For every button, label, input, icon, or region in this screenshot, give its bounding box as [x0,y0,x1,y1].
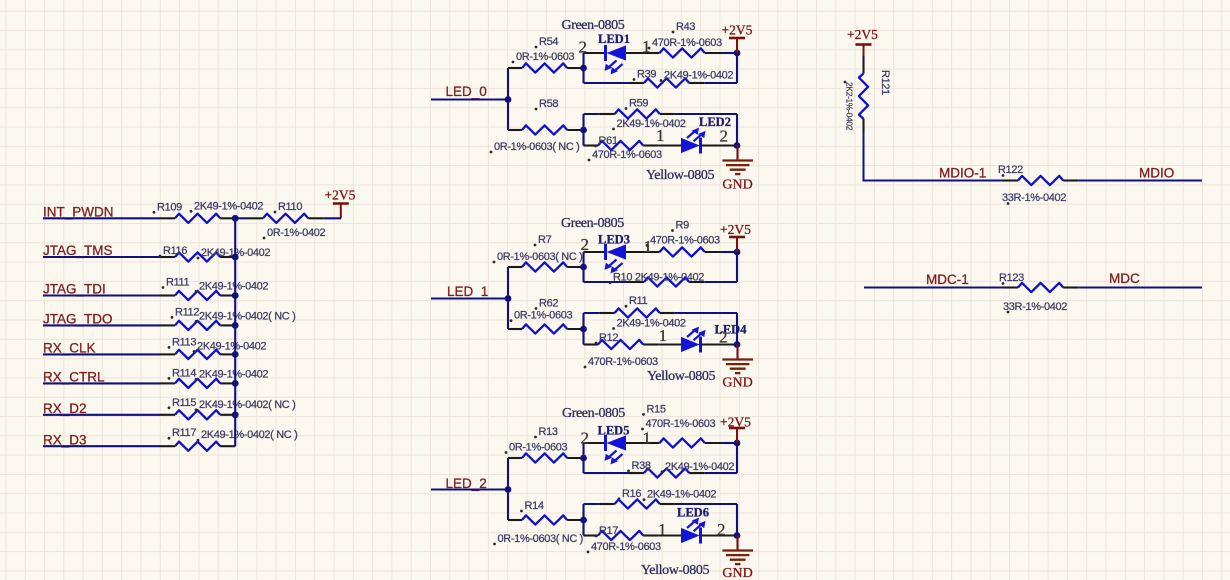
svg-text:R111: R111 [166,277,189,289]
svg-text:2K49-1%-0402( NC ): 2K49-1%-0402( NC ) [201,429,297,441]
svg-text:0R-1%-0603: 0R-1%-0603 [509,442,567,454]
label 470R-1%-0603 [588,149,662,161]
label 470R-1%-0603 [584,356,658,368]
svg-text:+2V5: +2V5 [720,222,751,237]
junction upper branch LED_0 [580,65,587,72]
wire gnd stem LED_0 [736,146,738,161]
junction lower branch LED_0 [580,127,587,134]
wire to LED3 cathode [584,251,606,253]
wire LED6 cathode to gnd [701,534,737,536]
resistor R113 [160,350,235,359]
wire to LED1 cathode [584,52,606,54]
wire R11 to gnd rail [675,312,737,314]
label R58 [535,98,559,110]
value R117 2K49-1%-0402( NC ) [197,429,298,441]
label R10 2K49-1%-0402 [609,272,705,284]
junction upper branch LED_1 [580,264,587,271]
junction gnd rail LED_0 [734,142,741,149]
label R13 [534,426,558,438]
value R110 0R-1%-0402 [263,227,326,239]
svg-text:R38: R38 [632,460,651,472]
wire LED_1 trunk [431,297,508,299]
svg-text:LED6: LED6 [677,505,709,519]
svg-text:470R-1%-0603: 470R-1%-0603 [592,149,662,161]
value R122 33R-1%-0402 [1002,192,1066,205]
wire trunk vertical LED_1 [507,267,509,329]
resistor R12 [584,340,659,349]
svg-text:R17: R17 [599,525,618,537]
label R16 [618,488,642,500]
wire LED5 anode to R15 [626,442,645,444]
power +2V5 left [325,188,356,219]
wire R15 to +2V5 rail [721,442,737,444]
junction lower branch LED_1 [580,326,587,333]
resistor R39 [629,78,704,87]
svg-text:2K49-1%-0402: 2K49-1%-0402 [194,200,263,212]
wire lower node vertical LED_1 [582,313,584,345]
wire R123 to MDC [1078,286,1202,288]
svg-text:R117: R117 [172,427,196,439]
junction bus y=354 [232,351,239,358]
wire RX_D3 [43,445,160,447]
junction gnd rail LED_1 [734,341,741,348]
junction +2V5 rail LED_0 [734,50,741,57]
junction trunk LED_1 [505,295,512,302]
svg-text:R15: R15 [647,403,666,415]
wire R61 to LED2 [658,144,681,146]
resistor R13 [508,453,584,462]
wire R17 to LED6 [658,534,681,536]
wire node to R11 [584,312,600,314]
svg-text:Green-0805: Green-0805 [562,18,625,33]
svg-text:0R-1%-0603: 0R-1%-0603 [514,310,572,322]
junction bus y=257 [232,254,239,261]
wire node to R39 [584,82,630,84]
label R123 [999,272,1024,285]
power +2V5 LED_1 [720,222,751,252]
wire +2V5 rail vertical LED_1 [736,252,738,282]
svg-text:R61: R61 [599,135,618,147]
power +2V5 LED_2 [720,415,751,444]
wire R43 to +2V5 rail [721,52,737,54]
led LED2 Yellow-0805 [681,128,706,154]
svg-text:R58: R58 [539,98,558,110]
svg-text:+2V5: +2V5 [720,415,751,430]
label 0R-1%-0603 [512,51,575,63]
svg-text:2K49-1%-0402: 2K49-1%-0402 [664,70,733,82]
svg-text:2: 2 [581,235,590,254]
resistor R10 [629,277,704,286]
label R12 [595,332,619,344]
wire upper node vertical LED_2 [582,443,584,473]
wire node to R38 [584,472,630,474]
svg-text:+2V5: +2V5 [847,27,878,42]
svg-text:R123: R123 [999,272,1024,284]
svg-text:GND: GND [722,178,752,193]
label 0R-1%-0603( NC ) [490,141,580,153]
label R62 [535,298,559,310]
wire upper node vertical LED_0 [582,53,584,83]
svg-text:1: 1 [659,326,668,345]
wire +2V5 rail vertical LED_2 [736,443,738,473]
svg-text:1: 1 [643,429,652,448]
svg-text:R113: R113 [172,336,196,348]
svg-text:R115: R115 [172,397,196,409]
wire R59 to gnd rail [675,113,737,115]
wire LED_2 trunk [431,488,508,490]
svg-text:R9: R9 [676,220,690,232]
svg-text:MDIO: MDIO [1139,166,1174,181]
svg-text:2K49-1%-0402( NC ): 2K49-1%-0402( NC ) [199,399,295,411]
resistor R54 [508,63,584,72]
label 0R-1%-0603( NC ) [493,251,583,263]
wire R10 to rail [704,281,737,283]
label 2K49-1%-0402 [643,489,717,501]
svg-text:LED3: LED3 [598,233,630,247]
wire trunk vertical LED_2 [507,458,509,520]
resistor R110 [248,214,323,223]
value R113 2K49-1%-0402 [193,340,267,352]
svg-text:0R-1%-0603: 0R-1%-0603 [516,51,574,63]
svg-text:Yellow-0805: Yellow-0805 [647,369,715,384]
label R114 [168,367,197,379]
wire node to R16 [584,503,600,505]
resistor R114 [160,379,235,388]
wire R9 to +2V5 rail [721,251,737,253]
label R111 [162,277,190,289]
wire JTAG_TDO [43,324,160,326]
svg-text:R43: R43 [676,21,695,33]
svg-text:R7: R7 [538,234,552,246]
svg-text:2: 2 [717,520,726,539]
resistor R7 [508,262,584,271]
label 2K49-1%-0402 [612,318,686,330]
resistor R115 [160,410,235,419]
junction lower branch LED_2 [580,517,587,524]
wire +2V5 rail vertical LED_0 [736,53,738,83]
junction bus y=218 [232,215,239,222]
svg-text:+2V5: +2V5 [325,188,356,203]
svg-text:RX_D3: RX_D3 [43,432,87,447]
power +2V5 right [847,27,878,58]
wire LED_0 trunk [431,98,508,100]
label R117 [168,427,197,439]
resistor R16 [600,499,675,508]
svg-text:1: 1 [642,37,651,56]
svg-text:1: 1 [658,520,667,539]
label R109 [153,201,183,213]
svg-text:R14: R14 [525,500,544,512]
svg-text:2K49-1%-0402: 2K49-1%-0402 [199,368,268,380]
resistor R111 [160,291,235,300]
value R121 2K2-1%-0402 [844,81,855,131]
svg-text:R122: R122 [998,164,1023,176]
ground LED_2 [722,551,753,580]
svg-text:2K49-1%-0402: 2K49-1%-0402 [617,318,686,330]
svg-text:Green-0805: Green-0805 [561,216,624,231]
resistor R17 [584,531,659,540]
label R54 [535,36,559,48]
wire gnd stem LED_1 [736,345,738,360]
junction bus y=414 [232,411,239,418]
value R111 2K49-1%-0402 [195,281,269,293]
label R61 [594,135,618,147]
wire gnd stem LED_2 [736,536,738,551]
wire +2V5 to R121 [862,56,864,74]
label R38 [627,460,651,472]
value R114 2K49-1%-0402 [195,368,269,380]
label R9 [671,220,689,232]
wire RX_D2 [43,414,160,416]
svg-text:2K49-1%-0402: 2K49-1%-0402 [617,118,686,130]
wire R110 to +2V5 [323,217,341,219]
junction bus y=325 [232,322,239,329]
resistor R58 [508,125,584,134]
svg-text:R39: R39 [637,69,656,81]
label R112 [171,306,200,318]
wire R121 to MDIO [864,133,1004,181]
resistor R116 [160,252,235,261]
label R15 [642,403,666,415]
junction +2V5 rail LED_1 [734,249,741,256]
label 0R-1%-0603( NC ) [493,533,583,545]
wire gnd rail vertical LED_0 [736,114,738,146]
junction upper branch LED_2 [580,455,587,462]
value R109 2K49-1%-0402 [190,200,264,212]
svg-text:+2V5: +2V5 [722,23,753,38]
label 2K49-1%-0402 [660,70,734,82]
wire lower node vertical LED_2 [582,504,584,536]
label R39 [633,69,657,81]
resistor R43 [645,48,721,57]
wire JTAG_TMS [43,256,160,258]
wire upper node vertical LED_1 [582,252,584,282]
svg-text:R10 2K49-1%-0402: R10 2K49-1%-0402 [613,272,704,284]
resistor R121 [859,74,868,134]
resistor R15 [645,438,721,447]
wire LED1 anode to R43 [626,52,645,54]
led LED6 Yellow-0805 [681,518,706,544]
svg-text:470R-1%-0603: 470R-1%-0603 [591,541,661,553]
resistor R109 [160,214,235,223]
svg-text:2K2-1%-0402: 2K2-1%-0402 [845,82,855,131]
resistor R38 [629,468,704,477]
svg-text:2K49-1%-0402( NC ): 2K49-1%-0402( NC ) [199,310,295,322]
label R116 [159,245,188,257]
svg-text:MDC-1: MDC-1 [926,272,969,287]
svg-text:2K49-1%-0402: 2K49-1%-0402 [647,489,716,501]
svg-text:Green-0805: Green-0805 [562,406,625,421]
junction trunk LED_2 [505,486,512,493]
ground LED_1 [722,360,753,391]
led LED1 Green-0805 [605,45,627,74]
svg-text:MDC: MDC [1109,271,1140,286]
wire R122 to MDIO [1078,179,1202,181]
led LED5 Green-0805 [605,435,627,464]
resistor R117 [160,442,235,451]
label R11 [625,295,648,307]
label 470R-1%-0603 [587,541,661,553]
wire R16 to gnd rail [675,503,737,505]
svg-text:R110: R110 [278,201,302,213]
svg-text:470R-1%-0603: 470R-1%-0603 [646,418,716,430]
led LED3 Green-0805 [605,244,627,273]
label R113 [168,336,197,348]
wire JTAG_TDI [43,294,160,296]
svg-text:GND: GND [722,566,752,580]
label 470R-1%-0603 [648,37,722,49]
svg-text:2K49-1%-0402: 2K49-1%-0402 [197,340,266,352]
junction bus y=295 [232,292,239,299]
wire LED2 cathode to gnd [701,144,737,146]
svg-text:470R-1%-0603: 470R-1%-0603 [650,235,720,247]
wire R12 to LED4 [658,343,681,345]
svg-text:LED_0: LED_0 [446,84,487,99]
wire RX_CTRL [43,382,160,384]
label 0R-1%-0603 [505,442,568,454]
junction bus y=383 [232,380,239,387]
wire gnd rail vertical LED_2 [736,504,738,536]
wire LED4 cathode to gnd [701,343,737,345]
wire RX_CLK [43,353,160,355]
wire trunk vertical LED_0 [507,68,509,130]
label 0R-1%-0603 [510,310,573,322]
svg-text:LED_1: LED_1 [447,284,488,299]
svg-text:MDIO-1: MDIO-1 [939,166,986,181]
ground LED_0 [722,161,753,193]
label R115 [168,397,197,409]
wire LED3 anode to R9 [626,251,645,253]
svg-text:33R-1%-0402: 33R-1%-0402 [1002,192,1066,204]
resistor R59 [600,109,675,118]
label 2K49-1%-0402 [612,118,686,130]
value R115 2K49-1%-0402( NC ) [195,399,296,411]
svg-text:0R-1%-0402: 0R-1%-0402 [267,227,325,239]
label 470R-1%-0603 [646,235,720,247]
svg-text:2: 2 [720,127,729,146]
label R7 [534,234,552,246]
label R122 [998,164,1023,177]
wire R39 to rail [704,82,737,84]
svg-text:LED1: LED1 [598,32,630,46]
wire lower node vertical LED_0 [582,114,584,146]
wire to LED5 cathode [584,442,606,444]
svg-text:GND: GND [722,376,752,391]
svg-text:33R-1%-0402: 33R-1%-0402 [1003,301,1067,313]
svg-text:0R-1%-0603( NC ): 0R-1%-0603( NC ) [498,533,583,545]
label 470R-1%-0603 [641,418,715,430]
svg-text:2: 2 [719,328,728,347]
svg-text:2K49-1%-0402: 2K49-1%-0402 [199,281,268,293]
label R17 [595,525,619,537]
resistor R62 [508,324,584,333]
svg-text:Yellow-0805: Yellow-0805 [641,563,709,578]
wire R38 to rail [704,472,737,474]
resistor R11 [600,308,675,317]
svg-text:R11: R11 [629,295,648,307]
wire node to R10 [584,281,630,283]
label R43 [672,21,696,33]
wire gnd rail vertical LED_1 [736,313,738,345]
wire node to R59 [584,113,600,115]
svg-text:0R-1%-0603( NC ): 0R-1%-0603( NC ) [494,141,579,153]
value R123 33R-1%-0402 [1003,301,1067,313]
junction trunk LED_0 [505,96,512,103]
svg-text:R12: R12 [599,332,618,344]
resistor R14 [508,515,584,524]
svg-text:2: 2 [581,429,590,448]
svg-text:2: 2 [579,38,588,57]
svg-text:470R-1%-0603: 470R-1%-0603 [588,356,658,368]
resistor R123 [1003,283,1078,292]
label R14 [520,500,544,512]
svg-text:R114: R114 [172,367,196,379]
power +2V5 LED_0 [722,23,753,54]
wire MDC-1 [864,286,1003,288]
label R59 [625,98,649,110]
svg-text:R112: R112 [175,306,199,318]
svg-text:1: 1 [656,126,665,145]
svg-text:0R-1%-0603( NC ): 0R-1%-0603( NC ) [497,251,582,263]
resistor R122 [1003,176,1078,185]
wire bus to R110 [235,217,248,219]
value R112 2K49-1%-0402( NC ) [195,310,296,322]
svg-text:Yellow-0805: Yellow-0805 [646,168,714,183]
svg-text:R13: R13 [539,426,558,438]
label R110 [274,201,303,213]
svg-text:R54: R54 [539,36,558,48]
svg-text:R62: R62 [539,298,558,310]
svg-text:R16: R16 [622,488,641,500]
junction gnd rail LED_2 [734,532,741,539]
svg-text:LED5: LED5 [598,424,630,438]
label 2K49-1%-0402 [661,461,735,473]
junction +2V5 rail LED_2 [734,440,741,447]
resistor R9 [645,247,721,256]
resistor R61 [584,141,659,150]
svg-text:470R-1%-0603: 470R-1%-0603 [652,37,722,49]
resistor R112 [160,321,235,330]
svg-text:R59: R59 [629,98,648,110]
value R116 2K49-1%-0402 [197,247,271,259]
svg-text:R109: R109 [157,201,182,213]
svg-text:2K49-1%-0402: 2K49-1%-0402 [665,461,734,473]
svg-text:R121: R121 [879,70,891,95]
wire INT_PWDN [43,217,160,219]
svg-text:R116: R116 [163,245,187,257]
wire pull-up bus [234,218,236,446]
led LED4 Yellow-0805 [681,327,706,353]
